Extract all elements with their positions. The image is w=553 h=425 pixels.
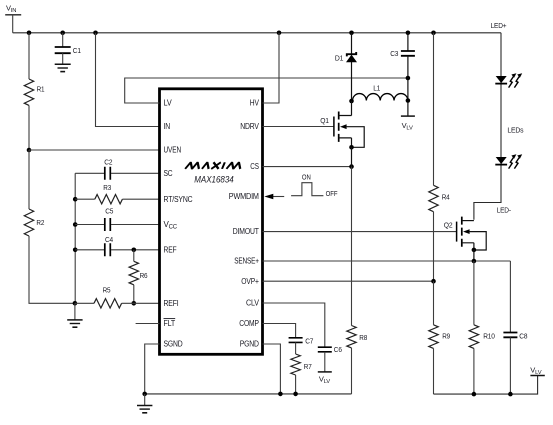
node R10 rail junction [472,392,477,397]
svg-text:D1: D1 [335,54,343,63]
node VLV bottom right [530,365,545,376]
capacitor C7 [289,336,314,345]
wire top VIN rail [13,32,501,34]
svg-text:R3: R3 [103,183,111,192]
wire LV loop to C3 bottom node [125,78,408,103]
svg-text:C8: C8 [519,331,527,340]
op-amp U1 MAX16834 IC body [160,89,263,355]
LED D2 top [495,73,522,87]
inductor L1 [353,84,408,101]
resistor R9 [429,281,450,394]
wire LED string from rail [474,33,501,220]
ground below C1 [55,64,71,71]
node Q1 source junction [349,145,354,150]
svg-text:ON: ON [302,175,311,182]
svg-text:C4: C4 [105,235,113,244]
svg-text:OFF: OFF [326,191,338,198]
MAXIM logo [185,162,242,169]
svg-text:IN: IN [164,122,171,131]
LED D3 bottom [495,154,522,168]
resistor R2 [24,150,75,303]
wire COMP to C7 [263,324,296,338]
node VLV under L1 [401,116,415,131]
transistor Q1 NMOS [320,101,364,147]
resistor R5 [75,286,160,308]
svg-text:R7: R7 [304,362,312,371]
svg-text:CLV: CLV [246,299,260,308]
svg-text:PWMDIM: PWMDIM [229,192,259,201]
capacitor C4 [75,235,159,256]
node OVP+/R4/R9 junction [431,279,436,284]
node CS junction [349,164,354,169]
svg-text:LED-: LED- [497,205,512,214]
svg-text:L1: L1 [373,84,380,93]
svg-text:VCC: VCC [164,220,178,231]
node C3 bottom / LV junction [406,76,411,81]
svg-text:VLV: VLV [530,365,541,376]
svg-text:SGND: SGND [164,340,183,349]
node C8 rail junction [508,392,513,397]
svg-text:R9: R9 [442,331,450,340]
svg-text:FLT: FLT [164,319,176,328]
node SENSE+/R10 junction [472,259,477,264]
svg-text:VIN: VIN [6,4,16,15]
svg-text:LED+: LED+ [491,21,508,30]
wire PGND drop [263,344,281,394]
svg-text:UVEN: UVEN [164,146,182,155]
svg-text:C3: C3 [390,49,398,58]
diode D1 schottky [335,33,357,101]
resistor R3 [75,183,159,204]
svg-text:C2: C2 [104,157,112,166]
PWMDIM input arrow [264,194,284,199]
wire NDRV to Q1 gate [263,126,334,128]
svg-text:MAX16834: MAX16834 [194,174,234,184]
svg-text:LEDs: LEDs [507,125,523,134]
wire Q1 source to CS node [351,147,353,166]
wire CLV to C6 [263,303,325,347]
PWM waveform ON/OFF [291,175,338,198]
wire SGND to ground rail [145,344,160,394]
capacitor C8 [503,261,527,394]
svg-text:NDRV: NDRV [240,122,259,131]
svg-text:HV: HV [250,99,260,108]
wire FLT stub [136,323,160,325]
svg-text:LV: LV [164,99,173,108]
transistor Q2 NMOS [444,217,486,250]
node D1/L1/Q1 drain junction [349,99,354,104]
svg-text:SC: SC [164,169,173,178]
wire UVEN [29,149,160,151]
node VIN input terminal [5,4,21,33]
svg-text:PGND: PGND [240,340,259,349]
svg-text:RT/SYNC: RT/SYNC [164,195,193,204]
svg-text:R6: R6 [140,271,148,280]
svg-text:R2: R2 [36,218,44,227]
svg-text:R8: R8 [359,333,367,342]
wire SENSE+ line [263,260,511,262]
node L1 right junction [406,98,411,103]
svg-text:VLV: VLV [402,121,413,132]
node PGND junction [278,392,283,397]
node junction dots on VIN rail [27,31,32,36]
resistor R7 [291,342,312,394]
capacitor C2 [75,157,159,180]
resistor R4 [429,33,450,281]
wire OVP+ line [263,280,434,282]
ground below SGND [137,394,152,413]
wire IN drop from rail [96,33,160,127]
capacitor C1 [55,33,81,64]
svg-text:SENSE+: SENSE+ [234,257,259,266]
svg-text:R4: R4 [442,193,450,202]
svg-text:CS: CS [250,162,259,171]
wire left capacitor bus [74,173,76,303]
capacitor C6 [318,345,342,372]
svg-text:VLV: VLV [319,375,330,386]
svg-text:C7: C7 [305,336,313,345]
wire HV riser to VIN rail [263,33,280,103]
resistor R1 [24,33,44,150]
wire CS line [263,166,352,168]
svg-text:R5: R5 [103,286,111,295]
node R7 junction [293,392,298,397]
svg-text:C5: C5 [105,206,113,215]
svg-text:R10: R10 [483,331,495,340]
resistor R6 [129,250,147,303]
svg-text:REFI: REFI [164,299,179,308]
wire right VLV rail [434,376,538,395]
svg-text:Q2: Q2 [444,220,453,229]
svg-text:C6: C6 [334,345,342,354]
svg-text:Q1: Q1 [320,116,329,125]
node SGND ground junction [142,392,147,397]
wire Q2 source to SENSE+ [473,250,475,261]
capacitor C3 [390,33,415,116]
node VLV under C6 [318,372,332,385]
wire DIMOUT to Q2 gate [263,231,457,233]
wire CS node down to R8 [351,167,353,326]
svg-text:COMP: COMP [239,319,259,328]
resistor R10 [469,261,495,394]
node UVEN junction [27,148,32,153]
svg-text:OVP+: OVP+ [241,277,259,286]
wire left ground rail [145,393,352,395]
node Q2 source junction [472,248,477,253]
node REFI/R6 junction [132,301,137,306]
svg-text:REF: REF [164,245,177,254]
resistor R8 [347,326,367,394]
capacitor C5 [75,206,159,231]
node REF/R6 junction [132,248,137,253]
ground below REFI bus [67,303,82,327]
svg-text:C1: C1 [73,46,81,55]
svg-text:R1: R1 [37,85,45,94]
svg-text:DIMOUT: DIMOUT [233,227,259,236]
